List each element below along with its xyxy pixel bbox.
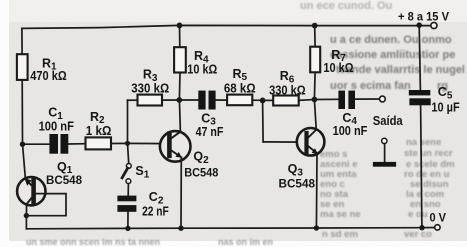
wire C5 bottom [421, 105, 422, 227]
wire R7 bottom [313, 72, 316, 99]
svg-text:10 kΩ: 10 kΩ [187, 61, 217, 76]
wire Q1 base loop [26, 194, 66, 216]
wire R3 left stub [128, 99, 138, 101]
node C5 rail junction [419, 225, 424, 230]
node Q2 base junction [125, 141, 130, 146]
node Q3 emitter rail junction [314, 225, 319, 230]
svg-text:0 V: 0 V [430, 210, 447, 224]
wire Q3 emitter down [315, 154, 318, 228]
wire C3 left lead [179, 99, 198, 101]
wire S1 to C2 [127, 184, 129, 196]
faint bleed-through text top right [300, 0, 465, 92]
svg-text:un sme onn scen im ns ta nnen: un sme onn scen im ns ta nnen [26, 237, 160, 247]
wire Q1 to bottom rail [25, 216, 27, 229]
wire node to R6 [263, 99, 274, 101]
wire C4 to output [355, 98, 380, 100]
wire S1 upper [128, 143, 129, 163]
resistor R4 [174, 47, 186, 72]
node Q1 collector-base junction [24, 213, 29, 218]
wire left rail upper [21, 28, 23, 54]
faint bleed bottom strip [26, 237, 273, 247]
svg-text:1 kΩ: 1 kΩ [86, 123, 112, 138]
node R5 R6 junction [260, 98, 266, 104]
terminal +V supply [431, 22, 437, 28]
switch S1 [122, 164, 131, 184]
svg-text:100 nF: 100 nF [333, 123, 368, 138]
svg-text:330 kΩ: 330 kΩ [131, 80, 169, 95]
resistor R5 [227, 95, 252, 106]
resistor R3 [138, 95, 163, 106]
resistor R7 [310, 47, 320, 73]
svg-text:ver co: ver co [404, 229, 432, 240]
faint bleed-through text bottom right [320, 137, 455, 240]
svg-text:u a ce dunen. Ou onmo: u a ce dunen. Ou onmo [330, 34, 452, 46]
node C5 top junction [416, 22, 422, 28]
svg-text:teande vallarrtis le nugel: teande vallarrtis le nugel [336, 64, 465, 76]
transistor Q3 [297, 128, 325, 156]
capacitor C3 [198, 91, 215, 110]
capacitor C4 [338, 91, 355, 109]
wire Q3 base horizontal [263, 141, 304, 143]
wire Q2 collector [179, 100, 180, 132]
wire R5 to node [252, 99, 262, 101]
wire Q2 emitter down [180, 157, 182, 228]
wire node to Q2 base [128, 142, 168, 144]
svg-text:e ou: e ou [408, 209, 428, 220]
node R7 top junction [312, 23, 318, 29]
capacitor C1 [49, 134, 68, 154]
capacitor C2 [117, 196, 136, 212]
wire R2 to base node [111, 142, 128, 144]
svg-text:uor s ecima fan: uor s ecima fan [330, 80, 411, 92]
svg-text:10 µF: 10 µF [431, 100, 459, 115]
svg-text:BC548: BC548 [46, 173, 82, 187]
svg-text:BC548: BC548 [279, 177, 316, 191]
wire R6 to node [299, 99, 313, 102]
wire C5 top [419, 25, 420, 90]
node R3 R4 C3 junction [176, 97, 182, 103]
node Q2 emitter rail junction [178, 226, 183, 231]
svg-text:un ece cunod. Ou: un ece cunod. Ou [300, 0, 392, 12]
transistor Q2 [160, 131, 191, 162]
ground symbol [373, 138, 396, 167]
svg-text:100 nF: 100 nF [39, 119, 74, 134]
wire R3 to node [162, 99, 179, 101]
capacitor C5 [409, 90, 431, 105]
transistor Q1 [17, 177, 45, 205]
resistor R1 [17, 54, 28, 80]
svg-text:+ 8 a 15 V: + 8 a 15 V [398, 10, 449, 24]
resistor R2 [86, 137, 112, 149]
node R6 R7 C4 junction [312, 97, 318, 103]
wire C2 to rail [127, 212, 129, 229]
svg-text:47 nF: 47 nF [196, 124, 224, 139]
svg-text:Saída: Saída [373, 113, 404, 128]
wire bottom rail [26, 228, 434, 229]
wire C1 left lead [23, 143, 50, 145]
svg-text:10 kΩ: 10 kΩ [323, 60, 353, 75]
wire C1 to R2 [68, 143, 85, 145]
svg-text:330 kΩ: 330 kΩ [269, 83, 306, 98]
node C1 junction [20, 142, 25, 147]
wire left rail to Q1 [23, 144, 26, 177]
node R4 top junction [177, 23, 183, 29]
wire top rail [22, 25, 431, 28]
terminal Saida output [380, 96, 386, 102]
resistor R6 [273, 96, 299, 106]
svg-text:n sd em: n sd em [322, 229, 358, 240]
wire left rail mid [21, 80, 23, 144]
wire C4 left lead [314, 98, 338, 100]
svg-text:BC548: BC548 [184, 165, 218, 179]
svg-text:ma se ne: ma se ne [320, 209, 361, 220]
wire C3 to R5 [216, 99, 228, 101]
svg-text:nas on im en: nas on im en [218, 237, 273, 247]
svg-text:470 kΩ: 470 kΩ [30, 68, 66, 83]
svg-text:ste un recr: ste un recr [404, 148, 453, 159]
wire R7 top [314, 26, 316, 47]
wire Q3 collector [314, 100, 316, 129]
terminal 0V [435, 225, 440, 230]
wire R4 top [179, 25, 181, 47]
wire Q1 collector down [25, 204, 27, 216]
svg-text:cassione amliitustior pe: cassione amliitustior pe [330, 49, 455, 61]
node C2 rail junction [125, 226, 130, 231]
wire R4 bottom [178, 73, 181, 101]
svg-text:22 nF: 22 nF [142, 203, 169, 218]
wire Q3 base vertical [262, 100, 265, 141]
svg-text:na sene: na sene [406, 137, 441, 148]
svg-text:68 kΩ: 68 kΩ [224, 81, 256, 96]
wire R3 left vertical [127, 100, 129, 143]
